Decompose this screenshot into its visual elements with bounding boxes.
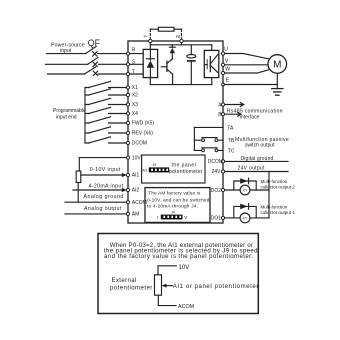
switch FWD <box>85 122 127 124</box>
wire resistor right lead <box>174 28 182 30</box>
wire resistor left lead <box>150 28 158 30</box>
wire 10V feed <box>79 158 126 171</box>
wire DC- rail <box>150 84 212 86</box>
terminal AM <box>126 212 129 215</box>
wire AM line <box>65 213 126 215</box>
wire B line <box>225 112 241 116</box>
terminal AI1 <box>126 173 129 176</box>
brake chopper IGBT Q <box>166 61 168 71</box>
wire rectifier bottom stub <box>149 78 151 85</box>
main inverter block outline <box>128 41 223 223</box>
wire A line <box>225 103 244 107</box>
breaker QF pole 1 X contact <box>93 52 97 56</box>
wire relay bus <box>193 127 195 150</box>
svg-text:AI2: AI2 <box>132 188 140 194</box>
svg-text:J9: J9 <box>153 163 157 167</box>
flyback diode D1 <box>234 206 256 218</box>
svg-text:DCOM: DCOM <box>208 159 223 165</box>
breaker QF pole 1 blade <box>86 46 97 53</box>
terminal T <box>126 72 129 75</box>
svg-text:Multi-function: Multi-function <box>261 205 288 210</box>
wire E line <box>224 84 277 86</box>
rectifier bridge box <box>130 54 144 74</box>
svg-text:AI1: AI1 <box>142 168 147 172</box>
terminal 10V <box>126 156 129 159</box>
svg-text:Programmable: Programmable <box>53 108 86 114</box>
svg-text:input: input <box>60 48 72 54</box>
svg-text:input end: input end <box>56 114 77 120</box>
svg-text:10V: 10V <box>179 264 191 271</box>
wire note pot 10V lead <box>158 266 176 275</box>
wire motor ground stem <box>276 73 278 88</box>
terminal AI2 <box>126 188 129 191</box>
terminal DO1 <box>221 216 224 219</box>
svg-text:Multi-function: Multi-function <box>261 179 288 184</box>
terminal PB <box>180 39 183 42</box>
svg-text:DO1: DO1 <box>211 216 222 222</box>
terminal V <box>221 63 224 66</box>
jumper box J9 <box>142 155 205 183</box>
terminal S <box>126 63 129 66</box>
svg-text:AI1: AI1 <box>132 173 140 179</box>
svg-text:10V: 10V <box>132 155 142 161</box>
wire note pot wiper <box>162 284 167 288</box>
svg-text:0-10V input: 0-10V input <box>90 167 121 173</box>
svg-text:switch output: switch output <box>245 143 275 149</box>
jumper block J4 <box>161 215 183 220</box>
svg-text:0-10V, and can be switched: 0-10V, and can be switched <box>147 197 210 202</box>
ground symbol <box>272 88 283 90</box>
wire U to motor <box>225 54 269 59</box>
switch DCOM <box>85 142 127 144</box>
svg-text:QF: QF <box>88 38 101 48</box>
wire 24V drop <box>268 172 270 218</box>
wire AI1 signal <box>81 174 123 176</box>
svg-text:FWD (X5): FWD (X5) <box>132 121 155 127</box>
terminal X4 <box>126 112 129 115</box>
svg-text:24V output: 24V output <box>238 165 265 171</box>
terminal X3 <box>126 103 129 106</box>
terminal W <box>221 71 224 74</box>
wire digital input bus <box>84 88 86 144</box>
terminal DCOM <box>126 141 129 144</box>
wire W to motor <box>225 70 269 73</box>
svg-text:PB: PB <box>176 35 181 39</box>
wire DO1 branch <box>225 217 241 219</box>
wire DC+ rail <box>150 44 212 46</box>
svg-text:The AM factory value is: The AM factory value is <box>148 191 200 196</box>
switch X1 <box>85 87 127 89</box>
terminal DO2 <box>221 188 224 191</box>
svg-text:I: I <box>157 215 158 220</box>
svg-text:KY: KY <box>243 217 248 221</box>
terminal FWD (X5) <box>126 121 129 124</box>
wire power line T <box>48 73 129 75</box>
wire AI2 signal <box>73 189 123 191</box>
wire digital ground line <box>225 160 288 162</box>
svg-text:and the factory value is the p: and the factory value is the panel poten… <box>104 253 253 260</box>
terminal R <box>126 52 129 55</box>
svg-text:W: W <box>225 66 230 72</box>
svg-text:KY: KY <box>243 189 248 193</box>
wire inverter bottom stub <box>211 78 213 85</box>
svg-text:potentiometer: potentiometer <box>169 169 203 175</box>
svg-text:interface: interface <box>240 115 260 121</box>
wire note pot ACOM lead <box>158 295 176 305</box>
note box bottom <box>98 234 258 314</box>
svg-text:R: R <box>132 48 136 54</box>
relay coil KY2 <box>240 185 250 195</box>
inverter IGBT box <box>204 50 219 77</box>
svg-text:collector output 2: collector output 2 <box>261 185 296 190</box>
relay contact TC <box>194 149 223 151</box>
wire potentiometer to analog ground <box>77 183 79 203</box>
terminal REV (X6) <box>126 131 129 134</box>
terminal X2 <box>126 93 129 96</box>
svg-text:potentiometer: potentiometer <box>110 285 153 292</box>
svg-text:collector output 1: collector output 1 <box>261 210 296 215</box>
svg-text:X4: X4 <box>132 111 138 117</box>
svg-text:ACOM: ACOM <box>178 304 195 310</box>
potentiometer external <box>76 171 81 183</box>
wire TA line <box>194 126 223 128</box>
terminal E <box>222 83 225 86</box>
note box J4 <box>145 188 210 223</box>
capacitor C <box>187 55 196 58</box>
motor M <box>268 55 287 74</box>
flyback diode D2 <box>234 181 256 190</box>
svg-text:the panel: the panel <box>172 163 197 169</box>
relay contact TB <box>194 139 223 141</box>
wire ACOM line <box>65 201 126 203</box>
wire power line S <box>45 63 128 65</box>
switch X2 <box>85 94 127 96</box>
potentiometer symbol in note <box>155 275 162 295</box>
terminal DCOM right <box>221 160 224 163</box>
svg-text:TB: TB <box>228 138 235 144</box>
terminal B <box>221 113 224 116</box>
breaker QF pole 3 X contact <box>93 71 97 75</box>
svg-text:Analog ground: Analog ground <box>84 194 124 200</box>
svg-text:4-20mA input: 4-20mA input <box>89 183 124 189</box>
svg-text:P+: P+ <box>144 35 148 39</box>
relay coil KY1 <box>240 213 250 223</box>
svg-text:TC: TC <box>228 148 235 154</box>
jumper block J9 <box>149 167 169 172</box>
svg-text:M: M <box>273 60 281 71</box>
breaker QF pole 3 blade <box>85 67 96 74</box>
svg-text:REV (X6): REV (X6) <box>132 131 153 137</box>
svg-text:DCOM: DCOM <box>132 141 147 147</box>
svg-text:TA: TA <box>227 125 234 131</box>
svg-text:AI1 or panel potentiometer: AI1 or panel potentiometer <box>173 283 259 290</box>
svg-text:X1: X1 <box>132 85 138 91</box>
terminal X1 <box>126 86 129 89</box>
terminal U <box>221 52 224 55</box>
terminal P+ <box>149 39 152 42</box>
switch X4 <box>85 113 127 115</box>
svg-text:External: External <box>112 277 137 284</box>
terminal A <box>221 103 224 106</box>
svg-text:X2: X2 <box>132 93 138 99</box>
wire 24V line <box>225 171 288 173</box>
braking resistor <box>158 27 174 31</box>
svg-text:DO2: DO2 <box>211 188 222 194</box>
svg-text:AM: AM <box>132 212 140 218</box>
rectifier diode D <box>149 49 151 77</box>
wire PB stub <box>181 43 183 45</box>
terminal 24V <box>221 170 224 173</box>
svg-text:Analog output: Analog output <box>84 206 122 212</box>
svg-text:X3: X3 <box>132 102 138 108</box>
svg-text:to 4-20mA through J4.: to 4-20mA through J4. <box>147 203 198 208</box>
wire inverter top stub <box>211 45 213 50</box>
svg-text:U: U <box>224 47 228 53</box>
breaker QF pole 2 blade <box>88 58 98 65</box>
wire P+ stub <box>149 43 151 50</box>
terminal ACOM <box>126 201 129 204</box>
brake chopper diode <box>171 45 173 59</box>
inverter IGBT symbol <box>206 59 208 69</box>
switch X3 <box>85 104 127 106</box>
breaker QF pole 2 X contact <box>93 62 97 66</box>
svg-text:V: V <box>184 215 187 220</box>
svg-text:Rs485 communication: Rs485 communication <box>227 109 283 115</box>
wire power line R <box>47 53 129 55</box>
svg-text:24V: 24V <box>212 169 222 175</box>
svg-text:J4: J4 <box>171 211 175 215</box>
wire V to motor <box>225 64 268 66</box>
wire DO2 branch <box>225 189 241 191</box>
switch REV <box>85 132 127 134</box>
